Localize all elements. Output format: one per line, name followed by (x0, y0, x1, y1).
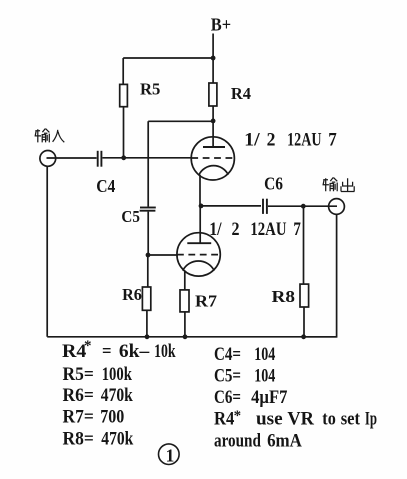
label U1b 1/2 12AU7 (209, 220, 301, 240)
U1b grid dashed (177, 254, 220, 256)
value text R7= 700 (63, 407, 125, 428)
svg-text:R8=: R8= (63, 428, 94, 449)
svg-text:6k–: 6k– (119, 341, 150, 362)
svg-text:6mA: 6mA (267, 431, 302, 452)
svg-text:700: 700 (100, 407, 124, 428)
svg-text:*: * (84, 338, 92, 354)
svg-text:C5: C5 (121, 207, 139, 226)
输入 input label (drawn glyphs) (35, 129, 65, 143)
svg-text:4µF7: 4µF7 (251, 387, 288, 408)
svg-text:R6: R6 (122, 285, 142, 304)
svg-text:104: 104 (254, 344, 275, 365)
svg-text:C5=: C5= (214, 365, 241, 386)
input terminal circle (40, 151, 56, 167)
svg-text:Ip: Ip (365, 409, 377, 430)
value text R8= 470k (63, 428, 134, 449)
triode U1a envelope (191, 137, 234, 180)
figure number circled 1 (159, 444, 180, 465)
resistor R8 (300, 284, 309, 307)
wire R8 top lead (303, 206, 305, 284)
svg-text:around: around (214, 431, 261, 452)
value text R4* = 6k-10k (62, 338, 176, 362)
junction R6 / rail (145, 334, 150, 339)
wire C5 bottom lead (147, 212, 149, 255)
wire R6 top lead (147, 255, 149, 287)
resistor R7 (180, 290, 189, 312)
svg-text:12AU: 12AU (287, 131, 322, 151)
svg-text:1: 1 (166, 445, 175, 465)
svg-text:=: = (102, 341, 112, 362)
wire top horizontal B+ to R5 branch (123, 57, 213, 59)
svg-text:7: 7 (328, 131, 337, 151)
svg-text:R7=: R7= (63, 407, 94, 428)
resistor R5 (120, 84, 128, 106)
输出 output label (drawn glyphs) (323, 178, 355, 192)
U1b cathode lead down (184, 271, 186, 290)
svg-text:7: 7 (293, 220, 301, 240)
wire R8 bottom lead (303, 307, 305, 337)
junction grid2 / C5 / R6 (146, 253, 151, 258)
svg-text:2: 2 (232, 220, 240, 240)
wire input down left side (46, 166, 48, 336)
triode U1b envelope (177, 233, 220, 276)
junction R8 / output (301, 204, 306, 209)
junction R8 / rail (301, 334, 306, 339)
svg-text:B+: B+ (211, 15, 231, 35)
wire R6 bottom lead (146, 310, 148, 337)
wire plate1 into tube (212, 121, 214, 147)
capacitor C4 (97, 151, 99, 167)
svg-text:R4: R4 (214, 409, 235, 430)
svg-text:R7: R7 (195, 291, 218, 310)
value text C4= 104 (214, 344, 276, 365)
junction plate1 / C5 branch (211, 119, 216, 124)
wire input to C4 (47, 157, 97, 159)
capacitor C6 (262, 199, 264, 214)
svg-text:C6: C6 (264, 173, 283, 193)
value text C6= 4uF7 (214, 387, 288, 408)
svg-text:use: use (256, 409, 283, 430)
svg-text:C4=: C4= (214, 344, 241, 365)
wire C5 top lead (147, 121, 149, 206)
U1a plate bar (203, 146, 225, 148)
svg-text:C6=: C6= (214, 387, 241, 408)
svg-text:470k: 470k (101, 385, 133, 406)
wire grid2 horizontal (148, 254, 178, 256)
svg-text:12AU: 12AU (250, 220, 286, 240)
value text C5= 104 (214, 365, 276, 386)
wire C6 to output (268, 205, 337, 207)
svg-text:*: * (234, 408, 242, 424)
value text R5= 100k (63, 364, 133, 385)
wire R5 top lead (122, 58, 124, 84)
resistor R6 (142, 287, 150, 310)
wire B+ vertical down to R4 top (212, 34, 214, 84)
svg-text:to: to (322, 409, 336, 430)
svg-text:104: 104 (254, 365, 275, 386)
wire horizontal to C5 branch (148, 120, 213, 122)
wire R7 bottom lead (184, 312, 186, 337)
wire R5 bottom lead to grid junction (123, 107, 125, 158)
svg-text:R8: R8 (272, 287, 296, 306)
svg-text:set: set (341, 409, 361, 430)
U1b plate bar (187, 242, 211, 244)
junction cathode1 / plate2 / C6 (199, 204, 204, 209)
svg-text:VR: VR (287, 409, 314, 430)
wire C4 to grid1 (102, 157, 191, 159)
note text around 6mA (214, 431, 302, 452)
U1a cathode arc (199, 166, 228, 175)
wire ground rail bottom (47, 336, 336, 338)
value text R6= 470k (63, 385, 134, 406)
svg-text:1/: 1/ (209, 220, 222, 240)
svg-text:R5=: R5= (63, 364, 94, 385)
svg-text:1/: 1/ (244, 131, 261, 151)
svg-text:R5: R5 (140, 79, 160, 98)
svg-text:10k: 10k (154, 341, 176, 362)
junction B+ rail (211, 56, 216, 61)
svg-text:R4: R4 (231, 84, 252, 103)
svg-text:100k: 100k (102, 364, 133, 385)
svg-text:C4: C4 (96, 176, 115, 196)
svg-text:470k: 470k (101, 428, 133, 449)
wire plate2 from junction into tube (199, 206, 201, 243)
junction grid1 / C4 / R5 (121, 155, 126, 160)
U1b cathode arc (183, 261, 215, 271)
svg-text:2: 2 (267, 131, 276, 151)
junction R7 / rail (183, 334, 188, 339)
wire to C6 (201, 205, 261, 207)
wire output down right side (304, 215, 337, 337)
svg-text:R6=: R6= (63, 385, 94, 406)
U1a grid dashed (191, 157, 234, 159)
U1a cathode lead down (199, 175, 201, 206)
wire R4 bottom lead (212, 106, 214, 121)
label U1a 1/2 12AU7 (244, 131, 337, 151)
resistor R4 (209, 83, 217, 106)
note text R4* use VR to set Ip (214, 408, 377, 430)
capacitor C5 (140, 207, 156, 209)
output terminal circle (329, 199, 345, 215)
